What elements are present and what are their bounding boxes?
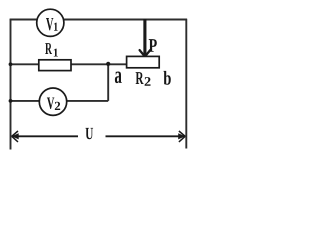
label b — [163, 71, 170, 85]
wire left rail — [10, 19, 12, 150]
wire node a to V2 vertical — [107, 64, 109, 101]
label V1 subscript 1 — [54, 23, 58, 31]
wire top — [10, 19, 187, 21]
label U — [85, 128, 93, 139]
U arrow right head — [178, 131, 185, 142]
U arrow left head — [12, 131, 19, 142]
voltmeter V1 — [37, 9, 64, 36]
U arrow left segment — [12, 135, 78, 137]
label V2 letter V — [47, 97, 54, 109]
label V1 letter V — [46, 18, 53, 30]
label P — [149, 39, 157, 52]
label V2 subscript 2 — [55, 102, 60, 110]
voltmeter V2 — [39, 88, 66, 115]
rheostat R2 body — [127, 56, 160, 67]
U arrow right segment — [106, 135, 186, 137]
junction node a dot — [106, 62, 110, 66]
wire right rail — [185, 19, 187, 149]
wire V2 row — [10, 100, 108, 102]
wiper feed thick wire — [143, 19, 146, 57]
label R1 subscript 1 — [54, 49, 58, 57]
wiper arrow P head — [140, 50, 151, 56]
label R2 subscript 2 — [145, 77, 151, 86]
wire row R1-R2 — [10, 63, 127, 65]
junction dot left-R1 — [9, 62, 13, 66]
label R2 letter R — [136, 72, 144, 84]
resistor R1 body — [39, 60, 71, 71]
junction dot left-V2 — [9, 99, 13, 103]
label R1 letter R — [45, 43, 52, 54]
label a — [115, 71, 122, 83]
